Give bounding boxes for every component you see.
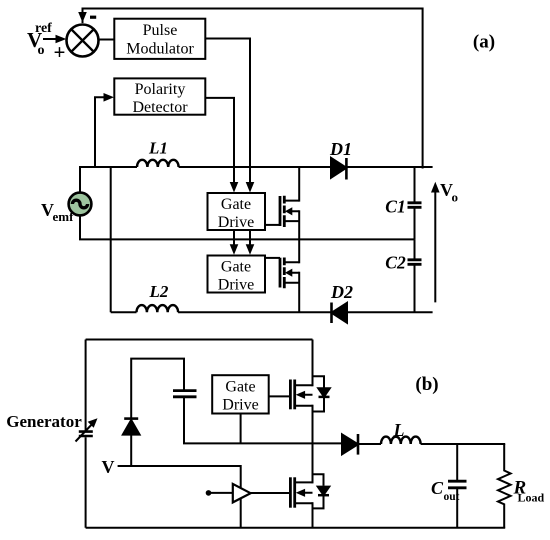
svg-text:Gate: Gate: [221, 196, 251, 213]
wire gate signals U1 to U2: [234, 230, 250, 247]
wire top rail left segment: [80, 167, 137, 193]
wire U3 bottom to mid rail: [240, 414, 242, 444]
transistor Q2 gate bar: [279, 258, 282, 288]
diode D4 series diode: [342, 434, 358, 454]
block Gate Drive U3: [212, 375, 269, 413]
wire left vertical above generator: [85, 340, 87, 431]
wire polarity detector input from Vemf top rail: [95, 97, 106, 167]
wire top rail of (b): [86, 339, 313, 341]
transistor Q3 gate bar: [289, 380, 292, 410]
wire Q3 source to mid rail: [312, 405, 314, 444]
wire Vemf bottom to middle rail: [80, 215, 415, 239]
block Polarity Detector: [114, 78, 205, 114]
wire mid rail to inductor: [358, 443, 381, 445]
wire inductor to output node: [421, 443, 506, 445]
wire D3 anode down to V rail: [130, 435, 132, 466]
wire Q2 drain to middle rail: [298, 239, 300, 263]
wire bottom rail right segment: [347, 311, 433, 313]
inductor L1: [137, 160, 179, 167]
svg-text:Load: Load: [518, 491, 545, 505]
diode D1: [331, 158, 346, 178]
buffer A1 driver: [233, 484, 251, 503]
wire Q1 source to middle rail: [298, 210, 300, 239]
svg-text:Modulator: Modulator: [126, 41, 194, 58]
wire Q3 drain to top rail: [312, 340, 314, 387]
wire U3 output to Q3 gate: [269, 395, 291, 397]
capacitor Cout: [456, 444, 458, 480]
wire C3 bottom to mid rail: [184, 398, 342, 444]
svg-text:emf: emf: [53, 209, 75, 224]
svg-text:(a): (a): [473, 32, 495, 53]
wire Q4 drain to mid rail: [312, 443, 314, 483]
wire input arrow to summing junction: [43, 38, 58, 40]
wire summing junction to pulse modulator: [99, 39, 115, 41]
transistor Q3 stubs and arrow: [295, 385, 313, 405]
transistor Q4 gate bar: [289, 477, 292, 507]
block Gate Drive U2: [208, 256, 266, 293]
svg-text:Pulse: Pulse: [143, 22, 178, 39]
wire V rail down to bottom rail: [118, 466, 241, 528]
svg-text:C2: C2: [385, 253, 406, 273]
svg-text:o: o: [452, 190, 459, 205]
block Gate Drive U1: [208, 193, 266, 230]
svg-text:Generator: Generator: [6, 412, 82, 431]
inductor L2: [137, 305, 179, 312]
svg-text:D1: D1: [329, 139, 352, 159]
summing junction S1: [67, 25, 99, 57]
wire feedback from output rail to summing junction: [83, 9, 423, 169]
svg-text:Gate: Gate: [225, 379, 255, 396]
svg-text:+: +: [54, 40, 66, 64]
transistor Q4 stubs and arrow: [295, 482, 313, 503]
svg-text:Detector: Detector: [132, 99, 188, 116]
wire bottom rail middle segment: [178, 311, 331, 313]
wire bottom rail of (b): [86, 527, 506, 529]
source Vemf: [69, 193, 92, 216]
wire buffer input with dot: [206, 490, 212, 496]
capacitor C2: [414, 239, 416, 259]
wire Q2 source to bottom rail: [298, 272, 300, 313]
wire inner rail diode-capacitor link: [131, 359, 184, 418]
block Pulse Modulator: [114, 19, 205, 59]
wire vertical link top rail to bottom rail: [110, 167, 112, 312]
diode D5 body diode of Q3: [313, 376, 325, 411]
wire Q1 drain to top rail: [298, 167, 300, 202]
wire Q2 gate: [265, 257, 280, 259]
wire top rail middle segment: [179, 166, 331, 168]
arrow Vo output voltage: [434, 190, 436, 302]
svg-text:C: C: [431, 478, 444, 498]
diode D6 body diode of Q4: [313, 474, 324, 508]
minus sign: [90, 16, 96, 19]
svg-text:ref: ref: [35, 21, 52, 36]
transistor Q2 channel (dashed): [283, 258, 286, 289]
wire top rail right segment: [346, 166, 432, 168]
resistor RLoad: [498, 444, 511, 528]
svg-text:Drive: Drive: [222, 397, 258, 414]
wire polarity detector output to gate drive 1: [205, 98, 234, 185]
svg-text:L1: L1: [148, 139, 168, 158]
svg-text:Drive: Drive: [218, 214, 254, 231]
inductor L3: [381, 437, 421, 444]
svg-text:Polarity: Polarity: [135, 81, 186, 98]
transistor Q1 gate bar: [279, 196, 282, 226]
svg-text:V: V: [102, 457, 115, 477]
transistor Q3 channel: [293, 380, 296, 410]
svg-text:Gate: Gate: [221, 259, 251, 276]
wire buffer output to Q4 gate: [251, 492, 291, 494]
wire Q4 source to bottom rail: [312, 502, 314, 528]
svg-text:out: out: [444, 491, 460, 503]
svg-text:L2: L2: [149, 282, 169, 301]
capacitor C3: [173, 391, 197, 397]
svg-text:Drive: Drive: [218, 277, 254, 294]
arrowhead into summing junction top: [78, 12, 87, 23]
transistor Q2 stubs and arrow: [284, 262, 299, 283]
wire bottom rail left segment: [111, 311, 137, 313]
transistor Q1 stubs and arrow: [284, 201, 299, 222]
transistor Q1 channel (dashed): [283, 196, 286, 227]
generator G1 variable source symbol: [79, 432, 93, 436]
svg-text:D2: D2: [330, 282, 353, 302]
wire left vertical below generator: [85, 437, 87, 527]
wire Q1 gate: [265, 224, 280, 226]
svg-text:C1: C1: [385, 197, 405, 217]
wire pulse modulator output to gate drive 1: [205, 39, 250, 185]
diode D3 (clamp, pointing up): [124, 417, 138, 420]
svg-text:(b): (b): [415, 374, 438, 395]
diode D2: [332, 303, 348, 323]
svg-text:o: o: [38, 43, 45, 58]
transistor Q4 channel: [293, 477, 296, 507]
capacitor C1: [414, 167, 416, 202]
svg-text:L: L: [393, 420, 405, 440]
